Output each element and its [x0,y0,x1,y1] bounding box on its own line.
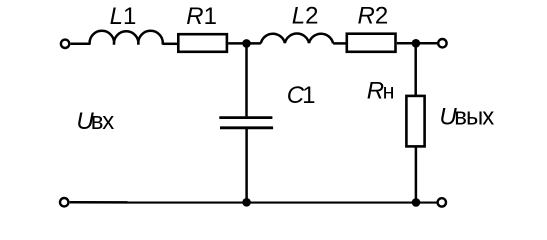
inductor L1 [90,31,163,45]
terminal: output bottom-right [438,198,446,206]
junction dot bottom of Rn [412,198,421,207]
svg-text:C1: C1 [287,82,316,109]
inductor L2 [261,34,333,44]
svg-text:R1: R1 [186,3,217,30]
svg-text:Uвых: Uвых [439,103,494,130]
wire: top-left terminal to L1 [71,43,91,46]
resistor Rn (load) [406,96,424,146]
node B junction dot [412,39,421,48]
svg-text:R2: R2 [358,3,389,30]
capacitor C1 [219,118,273,128]
resistor R2 [347,34,396,52]
wire: node B down to Rn [414,43,417,95]
terminal: input top-left [61,40,69,48]
terminal: input bottom-left [60,198,68,206]
node A junction dot [242,39,251,48]
wire: L2 to R2 [333,42,346,45]
junction dot bottom of C1 [242,198,251,207]
bottom rail wire [70,201,437,204]
wire: R2 to top-right terminal through node B [397,42,438,45]
resistor R1 [178,34,227,52]
wire: Rn down to bottom rail [415,146,418,202]
svg-text:Uвх: Uвх [76,108,114,135]
terminal: output top-right [438,39,446,47]
svg-text:Rн: Rн [367,77,395,104]
svg-text:L1: L1 [110,3,137,30]
wire: node A down to C1 [245,43,248,116]
wire: L1 to R1 [163,43,178,46]
wire: C1 down to bottom rail [245,129,248,202]
wire: R1 to L2 through node A [228,42,261,45]
svg-text:L2: L2 [292,3,319,30]
